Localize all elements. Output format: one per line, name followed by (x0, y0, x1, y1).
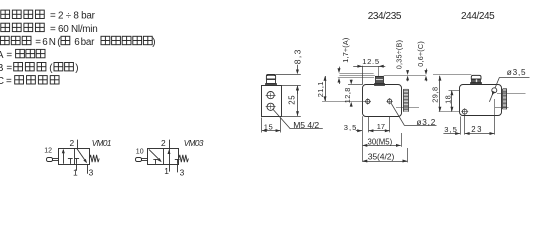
dim 25 body height (297, 86, 299, 116)
svg-text:3,5: 3,5 (444, 125, 458, 134)
VM01 return spring (90, 155, 100, 162)
svg-text:12.5: 12.5 (362, 57, 380, 66)
front view plunger cap (266, 75, 275, 80)
svg-text:3: 3 (89, 167, 94, 177)
right view plunger cap (471, 75, 481, 79)
right view plunger hatched mid (472, 80, 481, 83)
dim 0.35 (B) stroke (407, 71, 409, 72)
stroke ref line (dim C) right drawing (433, 74, 471, 76)
svg-text:=: = (6, 63, 12, 74)
svg-text:=: = (6, 50, 12, 61)
right view threaded port stack (503, 89, 507, 109)
VM03 valve body squares (148, 149, 179, 165)
body left edge extension up (12.5 dim) (362, 66, 364, 85)
svg-text:25: 25 (288, 95, 297, 105)
svg-text:18: 18 (443, 95, 452, 104)
VM01 right square blocked port T (76, 158, 78, 164)
dim 29.8 (439, 76, 441, 112)
spec text line 2: gong cheng liu liang = 60 Nl/min (1, 23, 10, 31)
svg-text:15: 15 (264, 122, 273, 131)
side view mounting hole left (366, 99, 370, 103)
front view plunger neck (267, 80, 276, 84)
svg-text:=: = (35, 37, 41, 48)
svg-text:8,3: 8,3 (292, 48, 302, 64)
svg-text:= 60 Nl/min: = 60 Nl/min (50, 24, 97, 35)
VM03 port 3 line (177, 164, 179, 172)
VM03 left square diagonal flow path (149, 149, 161, 161)
svg-text:): ) (75, 63, 78, 74)
svg-text:244/245: 244/245 (461, 11, 495, 22)
svg-text:1: 1 (73, 167, 78, 177)
svg-text:12,8: 12,8 (343, 87, 352, 103)
dim 21.1 left (325, 76, 327, 101)
right view lower port axis line (495, 107, 509, 109)
side view body (363, 85, 402, 117)
svg-text:1,7÷(A): 1,7÷(A) (341, 37, 350, 62)
right view mounting hole (462, 109, 467, 114)
svg-text:3: 3 (180, 167, 185, 177)
svg-text:= 2 ÷ 8 bar: = 2 ÷ 8 bar (50, 11, 96, 22)
svg-text:ø3,5: ø3,5 (507, 68, 527, 77)
dim 17 bottom (369, 130, 390, 132)
dim 8.3 plunger height (276, 74, 301, 76)
svg-text:12: 12 (44, 148, 52, 155)
svg-text:2: 2 (70, 138, 75, 148)
svg-text:3,5: 3,5 (344, 123, 358, 132)
side view plunger flange (375, 84, 385, 86)
leader and label dia 3.2 (391, 103, 405, 126)
svg-text:10: 10 (136, 149, 144, 156)
svg-text:N: N (49, 37, 56, 48)
front view port circle lower (267, 103, 274, 110)
svg-text:): ) (152, 37, 155, 48)
front view port circle upper (267, 92, 274, 99)
VM01 port 1 line (76, 164, 78, 171)
svg-text:234/235: 234/235 (368, 11, 402, 22)
stroke ref line right (dims B,C) (384, 75, 426, 77)
VM01 manual plunger actuator (47, 158, 53, 162)
VM03 left square blocked port T (155, 159, 157, 164)
front view body (262, 86, 282, 117)
VM01 left square blocked port T (70, 158, 72, 164)
svg-text:bar: bar (81, 37, 95, 48)
VM01 left square flow arrow (63, 150, 65, 164)
side view lower port axis line (396, 107, 419, 109)
dim 35 (4/2) bottom (363, 161, 408, 163)
right view upper port axis line (497, 93, 526, 95)
VM01 port 3 line (87, 164, 89, 174)
svg-text:21,1: 21,1 (316, 81, 325, 97)
svg-text:35(4/2): 35(4/2) (368, 151, 395, 161)
svg-text:A: A (0, 50, 4, 61)
dim 15 body width (261, 118, 263, 133)
svg-text:ø3,2: ø3,2 (417, 118, 437, 127)
VM01 valve body squares (59, 149, 90, 165)
spec text line 1: gong zuo ya li = 2 / 8 bar (1, 10, 10, 18)
right view body (460, 85, 502, 116)
svg-text:6: 6 (42, 37, 48, 48)
VM03 right square blocked port T (177, 159, 179, 164)
svg-text:C: C (0, 76, 4, 87)
leader and label M5 4/2 (273, 109, 291, 129)
VM03 right square flow line with arrow (port 2-1) (169, 140, 171, 172)
svg-text:=: = (6, 76, 12, 87)
dim 0.6 (C) stroke (426, 69, 428, 72)
front view plunger base flange (266, 84, 277, 86)
svg-text:M5 4/2: M5 4/2 (293, 120, 319, 130)
dim 30 (M5) bottom (363, 145, 401, 147)
dim 1.7 (A) stroke (339, 67, 341, 70)
svg-text:0,6÷(C): 0,6÷(C) (416, 41, 425, 67)
VM03 return spring (179, 155, 189, 162)
dim 12.5 top (353, 66, 385, 68)
svg-text:VM03: VM03 (184, 139, 204, 148)
dim 18 (449, 90, 461, 92)
right view pin circle dia 3.5 (492, 88, 497, 93)
svg-text:1: 1 (164, 166, 169, 176)
VM01 port 2 line (77, 140, 79, 149)
svg-text:23: 23 (471, 125, 483, 134)
side view plunger centerline (378, 66, 380, 76)
svg-text:(: ( (49, 63, 53, 74)
right view plunger flange (471, 83, 482, 85)
svg-text:6: 6 (74, 37, 80, 48)
svg-text:30(M5): 30(M5) (368, 137, 393, 146)
svg-text:17: 17 (377, 122, 385, 131)
spec text line 3: qu dong li = 6 N (zai 6 bar ...) (0, 36, 9, 44)
side view mounting hole right (388, 99, 392, 103)
stroke ref lines left (dim A) (339, 73, 373, 75)
bottom extension lines right drawing (460, 116, 462, 134)
bottom extension lines (362, 116, 364, 162)
VM03 manual plunger actuator (136, 158, 142, 162)
svg-text:29,8: 29,8 (430, 86, 439, 102)
dim 23 bottom right drawing (465, 133, 495, 135)
svg-text:B: B (0, 63, 4, 74)
svg-text:VM01: VM01 (92, 139, 111, 148)
leader line dia 3.5 (489, 77, 499, 101)
dim 3.5 bottom right drawing (443, 133, 460, 135)
svg-text:0,35÷(B): 0,35÷(B) (395, 40, 404, 70)
dim 12.8 left (348, 84, 362, 86)
VM01 right square diagonal flow path (77, 149, 86, 163)
svg-text:2: 2 (161, 138, 166, 148)
side view right face threaded port stack (403, 89, 408, 111)
side view plunger cap hatched (376, 77, 384, 84)
dim 3.5 bottom (356, 130, 362, 132)
